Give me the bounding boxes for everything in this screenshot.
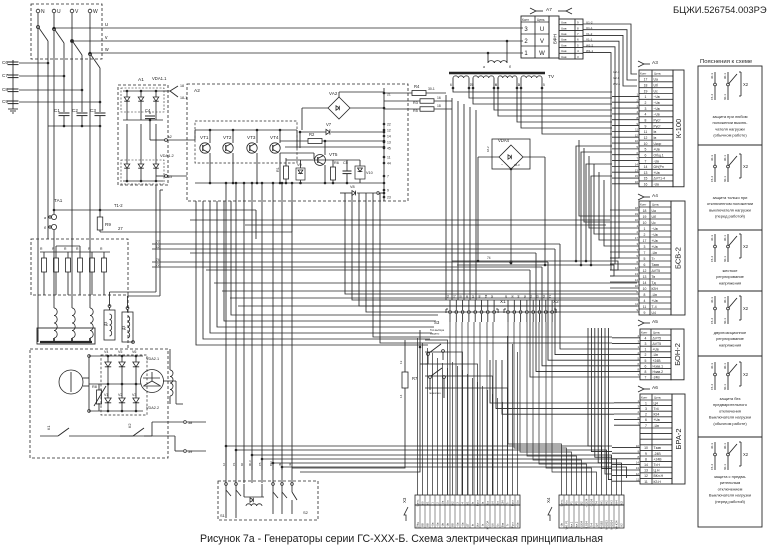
svg-text:9: 9 [645, 452, 647, 456]
svg-text:30-3: 30-3 [710, 363, 714, 369]
svg-text:60-1: 60-1 [723, 256, 727, 262]
phase vertical N [37, 13, 39, 342]
svg-text:VDA1.2: VDA1.2 [160, 153, 175, 158]
capacitor C8 [8, 88, 19, 90]
svg-text:22: 22 [387, 123, 391, 127]
bus bottom [89, 410, 143, 412]
svg-text:ΔVT5: ΔVT5 [653, 342, 662, 346]
svg-text:БФН: БФН [553, 34, 558, 44]
svg-text:отключенном положении: отключенном положении [707, 201, 753, 206]
svg-text:16: 16 [437, 96, 441, 100]
svg-text:V8: V8 [350, 185, 355, 189]
svg-text:~Uв: ~Uв [461, 522, 465, 527]
X1 pin wires down to X3 [449, 322, 451, 495]
svg-text:8: 8 [645, 118, 647, 122]
svg-text:V3: V3 [132, 393, 136, 397]
svg-text:18-1: 18-1 [180, 96, 187, 100]
A1 bottom bus [123, 180, 163, 182]
svg-text:60-1: 60-1 [723, 318, 727, 324]
svg-text:-Uв: -Uв [652, 251, 658, 255]
svg-text:12: 12 [635, 133, 639, 137]
svg-text:30-3: 30-3 [710, 443, 714, 449]
svg-text:14: 14 [636, 461, 640, 465]
svg-text:Тг.Н: Тг.Н [654, 463, 661, 467]
svg-text:А5: А5 [652, 319, 658, 325]
svg-text:Х2: Х2 [743, 244, 749, 249]
fan elbows to X3 [425, 340, 448, 495]
svg-text:11: 11 [635, 128, 638, 132]
resistor R13 [66, 258, 71, 272]
A1 mid tap [165, 139, 168, 142]
svg-text:10: 10 [636, 444, 640, 448]
svg-text:Взв: Взв [501, 522, 505, 527]
explanation cell 6 relay contact X2 [714, 442, 716, 453]
А6 input wires [614, 402, 640, 404]
svg-text:14: 14 [644, 463, 648, 467]
svg-text:90-3: 90-3 [248, 460, 252, 466]
ground symbol [12, 106, 14, 109]
svg-text:S2: S2 [303, 510, 309, 515]
svg-text:V2: V2 [118, 393, 122, 397]
svg-text:7: 7 [644, 251, 646, 255]
svg-text:W2-1: W2-1 [613, 82, 620, 86]
svg-text:13: 13 [644, 171, 648, 175]
svg-text:7: 7 [645, 159, 647, 163]
svg-text:Т1-2: Т1-2 [114, 203, 123, 208]
svg-text:Т4: Т4 [595, 501, 599, 505]
svg-text:15-4: 15-4 [710, 176, 714, 182]
svg-text:12: 12 [387, 129, 391, 133]
svg-text:18: 18 [635, 206, 639, 210]
diode V6 [135, 356, 137, 362]
svg-text:К2: К2 [127, 423, 132, 428]
diode A1 bottom [126, 124, 128, 164]
svg-text:Выключателя нагрузки: Выключателя нагрузки [709, 415, 751, 420]
svg-text:3: 3 [645, 342, 647, 346]
TV secondary coils [453, 76, 469, 78]
svg-text:60-1: 60-1 [723, 176, 727, 182]
svg-text:W: W [93, 9, 98, 15]
svg-text:~Uв: ~Uв [654, 95, 660, 99]
svg-text:6: 6 [645, 364, 647, 368]
svg-text:Пояснения к схеме: Пояснения к схеме [700, 59, 753, 65]
S1 contacts [225, 483, 228, 486]
resistor R12 [54, 258, 59, 272]
wire 27 [100, 231, 292, 233]
svg-text:VT3: VT3 [247, 135, 256, 140]
svg-text:2: 2 [645, 353, 647, 357]
explanation cell 4 relay contact X2 [714, 296, 716, 307]
svg-text:положении выклю-: положении выклю- [712, 120, 748, 125]
svg-text:2: 2 [645, 413, 647, 417]
svg-text:Конт: Конт [641, 331, 648, 335]
svg-text:13: 13 [644, 469, 648, 473]
bus mid [89, 383, 141, 385]
svg-text:2: 2 [645, 101, 647, 105]
svg-text:15-4: 15-4 [710, 318, 714, 324]
top bus in resistor box [40, 251, 110, 253]
wires from K contacts [151, 422, 153, 436]
svg-text:V: V [540, 39, 544, 45]
svg-text:чателя нагрузки: чателя нагрузки [715, 126, 745, 131]
svg-text:15-4: 15-4 [710, 256, 714, 262]
svg-text:+Uв: +Uв [652, 299, 658, 303]
svg-text:+Uв: +Uв [652, 245, 658, 249]
dashed link to generator box [127, 295, 129, 349]
svg-text:Цепь: Цепь [416, 499, 420, 506]
svg-text:N: N [41, 9, 45, 15]
svg-text:Uа: Uа [652, 209, 656, 213]
svg-text:Р1: Р1 [570, 501, 574, 505]
svg-text:30-1: 30-1 [428, 87, 435, 91]
svg-text:VН1 Р1: VН1 Р1 [565, 520, 569, 529]
svg-text:-Uв: -Uв [446, 522, 450, 527]
svg-text:ВК: ВК [484, 294, 488, 298]
svg-text:12: 12 [644, 474, 648, 478]
svg-text:Руст: Руст [654, 118, 662, 122]
svg-text:V2-1: V2-1 [613, 76, 620, 80]
diode A1 bottom [140, 124, 142, 164]
svg-text:~Uв: ~Uв [436, 522, 440, 527]
phase vertical V [71, 13, 73, 308]
svg-text:жесткое: жесткое [723, 268, 739, 273]
svg-text:+Uв: +Uв [446, 500, 450, 506]
svg-text:ΔVT1-4: ΔVT1-4 [654, 177, 666, 181]
wire 29 long [457, 265, 614, 276]
A2 right bus [383, 88, 385, 201]
neutral tie line [48, 125, 100, 127]
diode V2 [121, 384, 123, 398]
S2 contacts [272, 483, 275, 486]
svg-text:U1-2: U1-2 [586, 21, 593, 25]
svg-text:Общ.1: Общ.1 [654, 153, 664, 157]
svg-text:VDA2.2: VDA2.2 [146, 406, 159, 410]
transformer TV primary [506, 41, 508, 60]
svg-text:Р5: Р5 [575, 501, 579, 505]
terminal W [88, 9, 92, 13]
svg-text:14: 14 [387, 135, 391, 139]
svg-text:10: 10 [643, 287, 647, 291]
svg-text:ΩН(Рн: ΩН(Рн [654, 165, 664, 169]
phase vertical W [89, 13, 91, 308]
svg-text:U1-1: U1-1 [586, 26, 593, 30]
svg-text:5: 5 [645, 359, 647, 363]
svg-text:ВКл.Н: ВКл.Н [654, 474, 664, 478]
bus top [89, 355, 143, 357]
svg-text:30-3: 30-3 [710, 155, 714, 161]
tap vertical 1 [47, 41, 49, 126]
svg-text:10: 10 [635, 284, 639, 288]
svg-text:+12/24: +12/24 [585, 498, 589, 507]
svg-text:V6: V6 [132, 350, 136, 354]
aux leads [109, 292, 111, 306]
svg-text:ВВ: ВВ [451, 523, 455, 527]
svg-text:R2: R2 [309, 132, 315, 137]
svg-text:VА2: VА2 [329, 91, 338, 96]
svg-text:БОН-2: БОН-2 [673, 343, 682, 366]
svg-text:u: u [105, 22, 108, 28]
svg-text:Х4: Х4 [546, 497, 551, 503]
svg-text:4: 4 [644, 299, 646, 303]
svg-text:11: 11 [636, 477, 639, 481]
terminal U [52, 9, 56, 13]
svg-text:U2-1: U2-1 [613, 70, 620, 74]
svg-text:Тг4: Тг4 [654, 407, 659, 411]
svg-text:защита только при: защита только при [713, 195, 748, 200]
svg-text:19: 19 [643, 215, 647, 219]
svg-text:Uав: Uав [561, 43, 567, 47]
svg-text:w: w [105, 47, 109, 53]
svg-text:-24В: -24В [653, 376, 661, 380]
svg-text:R3: R3 [413, 101, 418, 105]
svg-text:74: 74 [156, 258, 160, 262]
svg-text:VT4: VT4 [270, 135, 279, 140]
stator coil [72, 308, 75, 338]
svg-text:C8: C8 [2, 87, 8, 92]
svg-text:КЗ.Н: КЗ.Н [654, 480, 662, 484]
svg-text:ΩТ: ΩТ [466, 523, 470, 527]
S2 blade contact [291, 483, 294, 486]
svg-text:-24В: -24В [654, 452, 662, 456]
explanation cell 1 relay contact X2 [714, 72, 716, 83]
tap continues [47, 126, 49, 239]
A2 bottom bus [195, 182, 384, 184]
svg-text:Вкл.2: Вкл.2 [575, 521, 579, 528]
tap vertical 4 [99, 68, 101, 112]
svg-text:б: б [509, 65, 511, 69]
A2 mid horizontals [285, 146, 384, 148]
svg-text:R9: R9 [105, 222, 111, 227]
svg-text:Тавв: Тавв [652, 263, 660, 267]
svg-text:14: 14 [643, 281, 647, 285]
svg-text:90-1: 90-1 [723, 443, 727, 449]
svg-text:Х2: Х2 [743, 164, 749, 169]
svg-text:82: 82 [580, 501, 584, 505]
svg-text:Uав: Uав [561, 26, 567, 30]
svg-text:Цепь: Цепь [654, 72, 662, 76]
TV secondary output wiring to A3 [453, 88, 612, 92]
transistor VT4 [270, 143, 280, 153]
svg-text:а: а [44, 216, 46, 220]
tap vertical 3 [81, 55, 83, 112]
diode V3 [135, 384, 137, 398]
svg-text:23: 23 [387, 196, 391, 200]
svg-text:КЗ: КЗ [620, 523, 624, 526]
stabilitron V10 [355, 166, 365, 179]
diode A1 bottom [155, 124, 157, 164]
БОН-2 module box [671, 329, 684, 380]
svg-text:W1-2: W1-2 [586, 43, 593, 47]
svg-text:15-4: 15-4 [710, 384, 714, 390]
svg-text:C9: C9 [2, 99, 8, 104]
svg-text:14: 14 [635, 278, 639, 282]
diode A1 top [155, 91, 157, 97]
svg-text:17: 17 [643, 239, 647, 243]
svg-text:C2: C2 [72, 108, 78, 113]
svg-text:Тг: Тг [506, 524, 510, 527]
svg-text:1: 1 [644, 227, 646, 231]
svg-text:60-1: 60-1 [723, 464, 727, 470]
svg-text:90-1: 90-1 [723, 297, 727, 303]
A2 internal rail [286, 159, 360, 161]
A1 top bus [123, 90, 163, 92]
svg-text:+12/24: +12/24 [580, 520, 584, 529]
svg-text:45: 45 [387, 147, 391, 151]
capacitor C6 [8, 61, 19, 63]
S1 coil with diode [244, 496, 264, 498]
wires into X4 [601, 468, 603, 495]
capacitor C3 [95, 112, 106, 114]
left elbows down to S1 S2 [225, 183, 227, 470]
explanations column box [698, 66, 762, 527]
svg-text:ВКл: ВКл [565, 500, 569, 505]
svg-text:+Uв: +Uв [516, 500, 520, 506]
explanation cell 2 relay contact X2 [714, 154, 716, 165]
resistor R14 [78, 258, 83, 272]
svg-text:8: 8 [518, 83, 520, 87]
svg-text:Uав: Uав [561, 21, 567, 25]
svg-text:30-3: 30-3 [710, 297, 714, 303]
resistor box inner links [55, 246, 57, 252]
capacitor bank C6-C9 [12, 60, 14, 106]
svg-text:14: 14 [635, 163, 639, 167]
svg-text:ДЗ: ДЗ [104, 322, 108, 326]
svg-text:А6: А6 [652, 385, 658, 391]
aux winding L2 [122, 312, 133, 342]
svg-text:9: 9 [645, 124, 647, 128]
svg-text:Uб: Uб [654, 83, 658, 87]
exciter machine circle [59, 370, 83, 394]
svg-text:S1: S1 [220, 513, 226, 518]
svg-text:30-3: 30-3 [710, 235, 714, 241]
К-100 module box [673, 70, 684, 187]
exciter leads [143, 377, 160, 379]
svg-text:регулирование: регулирование [716, 274, 745, 279]
svg-text:а: а [483, 65, 485, 69]
svg-text:5: 5 [543, 83, 545, 87]
svg-text:Uб: Uб [652, 215, 656, 219]
svg-text:90-1: 90-1 [723, 155, 727, 161]
wire T1-2 [54, 209, 256, 211]
svg-text:ВВ: ВВ [426, 523, 430, 527]
svg-text:Х3: Х3 [402, 497, 407, 503]
svg-text:9: 9 [387, 189, 389, 193]
A7 connector table [521, 16, 549, 58]
svg-text:Общ: Общ [416, 521, 420, 528]
bus w [90, 52, 523, 54]
svg-text:60-1: 60-1 [723, 94, 727, 100]
terminal V [70, 9, 74, 13]
block A2 dashed box [187, 84, 408, 201]
svg-text:11: 11 [387, 156, 391, 160]
transistor VT3 [247, 143, 257, 153]
svg-text:КТСОА: КТСОА [486, 520, 490, 529]
svg-text:62: 62 [451, 501, 455, 505]
svg-text:3: 3 [644, 245, 646, 249]
svg-text:Uав: Uав [561, 49, 567, 53]
svg-text:U4: U4 [652, 311, 656, 315]
svg-text:Ц.Н: Ц.Н [654, 469, 660, 473]
svg-text:К-100: К-100 [674, 119, 683, 138]
capacitor C7 [8, 74, 19, 76]
transformer TV core bar [449, 72, 545, 74]
A7 right table [559, 19, 583, 59]
svg-text:Uб: Uб [491, 523, 495, 527]
switch box S1 S2 dashed [218, 481, 318, 520]
svg-text:ТV: ТV [548, 74, 555, 80]
svg-text:V1-2: V1-2 [586, 32, 593, 36]
svg-text:+24В: +24В [654, 457, 663, 461]
wire 74 long [452, 261, 618, 270]
svg-text:72: 72 [156, 263, 160, 267]
svg-text:двухпозиционное: двухпозиционное [714, 330, 747, 335]
transistor VT1 [200, 143, 210, 153]
svg-text:выключателя нагрузки: выключателя нагрузки [709, 207, 751, 212]
damper resistor dashed box [31, 239, 128, 295]
svg-text:16: 16 [644, 183, 648, 187]
svg-text:19: 19 [635, 212, 639, 216]
A2 top rail [195, 129, 297, 131]
resistor R7 [402, 372, 408, 388]
capacitor C2 [77, 112, 88, 114]
svg-text:4: 4 [645, 336, 647, 340]
svg-text:Руст: Руст [511, 521, 515, 527]
svg-text:А3: А3 [652, 60, 658, 66]
svg-text:VН:КЗ4: VН:КЗ4 [615, 520, 619, 529]
A7 output wires [583, 24, 637, 74]
svg-text:18: 18 [644, 83, 648, 87]
svg-text:12: 12 [643, 269, 647, 273]
svg-text:-Uв: -Uв [652, 293, 658, 297]
diode V4 [107, 356, 109, 362]
svg-text:V4: V4 [104, 350, 108, 354]
svg-text:Цепь: Цепь [653, 331, 661, 335]
svg-text:Р1: Р1 [232, 462, 236, 466]
A3 lower row feeds [576, 146, 612, 261]
svg-text:11: 11 [644, 130, 648, 134]
svg-text:Р1: Р1 [452, 294, 456, 298]
svg-text:А1: А1 [138, 77, 144, 83]
svg-text:V7: V7 [326, 122, 332, 127]
bus u [54, 27, 523, 29]
svg-text:60: 60 [421, 501, 425, 505]
svg-text:ВН4: ВН4 [615, 500, 619, 506]
phase vertical U [53, 13, 55, 214]
svg-text:18-2: 18-2 [486, 146, 490, 152]
svg-text:Т-4: Т-4 [652, 305, 657, 309]
generator dashed box G1 [30, 349, 168, 458]
svg-text:17: 17 [644, 78, 648, 82]
input terminal dashed box [31, 4, 102, 59]
svg-text:18: 18 [437, 104, 441, 108]
svg-text:60-1: 60-1 [723, 384, 727, 390]
S1S2 top leads [225, 470, 227, 483]
svg-text:W1-1: W1-1 [586, 49, 593, 53]
svg-text:Iв: Iв [654, 130, 657, 134]
svg-text:8: 8 [644, 293, 646, 297]
svg-text:Ц4: Ц4 [654, 401, 659, 405]
svg-text:+Uв: +Uв [516, 522, 520, 527]
links from A1 down to aux windings [155, 185, 157, 292]
svg-text:10: 10 [470, 83, 474, 87]
resistor R16 [102, 258, 107, 272]
svg-text:10: 10 [644, 446, 648, 450]
svg-text:БСВ-2: БСВ-2 [674, 247, 683, 269]
svg-text:Нзав.1: Нзав.1 [653, 364, 664, 368]
svg-text:V1: V1 [104, 393, 108, 397]
svg-text:б: б [44, 226, 46, 230]
svg-text:5: 5 [645, 148, 647, 152]
